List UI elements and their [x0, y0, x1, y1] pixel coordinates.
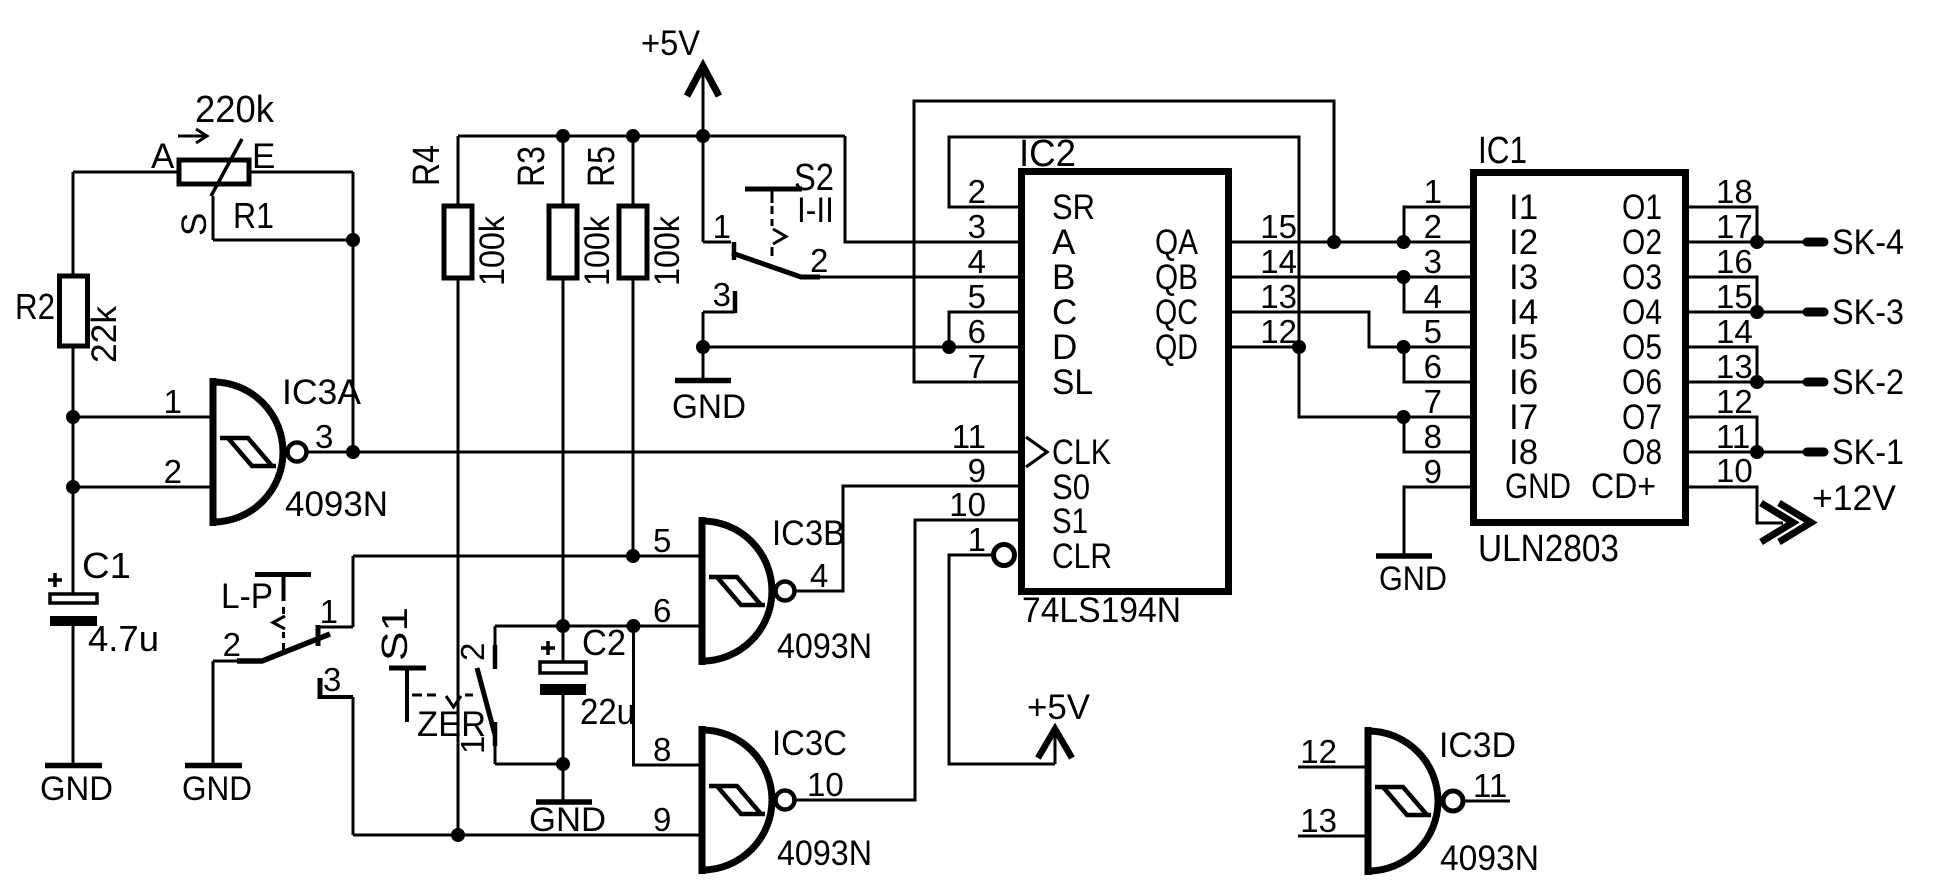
svg-text:QD: QD [1155, 328, 1198, 367]
node bus/+5V stem [696, 129, 710, 143]
svg-text:12: 12 [1300, 733, 1337, 770]
svg-text:5: 5 [653, 522, 671, 559]
wire bus corner to IC2 A [845, 136, 1021, 242]
wire IC3A output to CLK node [308, 451, 353, 454]
svg-text:A: A [1052, 223, 1076, 262]
svg-text:14: 14 [1260, 243, 1297, 280]
power +12V double chevron [1761, 503, 1811, 542]
svg-text:1: 1 [164, 383, 182, 420]
wire C1 to ground [72, 626, 75, 764]
svg-text:QA: QA [1155, 223, 1199, 262]
svg-text:4093N: 4093N [285, 485, 388, 524]
svg-text:I4: I4 [1509, 293, 1538, 332]
wire IC3D output [1465, 800, 1510, 803]
svg-text:22k: 22k [85, 306, 124, 363]
svg-text:9: 9 [653, 801, 671, 838]
svg-text:220k: 220k [195, 89, 275, 131]
wire O8 row to SK-1 [1689, 451, 1803, 454]
ground (L-P) [185, 763, 242, 769]
svg-text:13: 13 [1300, 802, 1337, 839]
svg-text:O7: O7 [1622, 398, 1662, 437]
svg-text:100k: 100k [648, 216, 687, 286]
svg-text:11: 11 [952, 418, 986, 455]
svg-text:100k: 100k [473, 216, 512, 286]
svg-text:S: S [175, 213, 214, 236]
pushbutton S1 ZER [389, 626, 495, 764]
svg-text:8: 8 [1424, 418, 1442, 455]
node IC3A output junction [346, 445, 360, 459]
svg-text:B: B [1052, 258, 1075, 297]
connector plug SK-1 [1807, 448, 1824, 457]
svg-text:3: 3 [968, 208, 986, 245]
svg-text:IC3A: IC3A [282, 373, 362, 412]
svg-text:11: 11 [1716, 418, 1750, 455]
svg-text:22u: 22u [580, 691, 635, 732]
svg-text:6: 6 [1424, 348, 1442, 385]
svg-text:10: 10 [807, 766, 844, 803]
svg-text:GND: GND [1379, 560, 1447, 598]
wire S1 pin2 row to IC3B pin6 [495, 625, 701, 628]
svg-text:2: 2 [454, 643, 491, 661]
svg-text:15: 15 [1260, 208, 1297, 245]
wire S2 pin3 down to D row [702, 312, 705, 347]
svg-text:+5V: +5V [1027, 688, 1091, 727]
svg-text:2: 2 [223, 626, 241, 663]
resistor R4 100k [444, 206, 472, 278]
svg-text:D: D [1052, 328, 1077, 367]
svg-text:GND: GND [672, 388, 746, 426]
svg-text:QC: QC [1155, 293, 1198, 332]
svg-text:4: 4 [1424, 278, 1442, 315]
wire O5 tie [1689, 347, 1757, 382]
ground (S2) [675, 378, 731, 384]
wire IC2 CLR to +5V [949, 555, 1055, 764]
svg-text:O8: O8 [1622, 433, 1662, 472]
svg-text:I1: I1 [1509, 188, 1538, 227]
power +5V arrow (top) [687, 66, 719, 242]
svg-text:GND: GND [529, 801, 606, 839]
svg-text:I2: I2 [1509, 223, 1538, 262]
svg-text:11: 11 [1473, 767, 1507, 804]
svg-text:I5: I5 [1509, 328, 1538, 367]
svg-text:QB: QB [1155, 258, 1198, 297]
wire R2 to C1 (IC3A input rail) [72, 346, 75, 594]
node C/D tie [942, 340, 956, 354]
wire O7 tie [1689, 417, 1757, 452]
potentiometer R1 220k [178, 129, 249, 196]
svg-text:8: 8 [653, 731, 671, 768]
svg-text:9: 9 [1424, 453, 1442, 490]
wire IC3C output to IC2 S1 [796, 520, 1021, 800]
wire R1 wiper S down [212, 196, 215, 240]
svg-text:O5: O5 [1622, 328, 1662, 367]
wire D row to IC2 D [703, 346, 1021, 349]
svg-text:GND: GND [40, 770, 113, 808]
svg-text:SK-4: SK-4 [1832, 223, 1904, 262]
wire IC1 pin9 to ground [1404, 487, 1470, 554]
wire IC1 pin1 tie [1404, 207, 1470, 242]
svg-text:18: 18 [1716, 173, 1753, 210]
switch S2 I-II [703, 189, 820, 313]
svg-text:+5V: +5V [641, 24, 701, 63]
svg-text:R1: R1 [233, 195, 274, 236]
ground (C1) [45, 763, 102, 769]
node QD/IC1 tie [1397, 410, 1411, 424]
wire IC2 C to D tie [949, 312, 1021, 347]
wire clock line to IC2 CLK [353, 451, 1021, 454]
svg-text:O4: O4 [1622, 293, 1662, 332]
wire wiper to node [213, 239, 353, 242]
gate IC3D 4093N [1368, 727, 1463, 875]
svg-text:12: 12 [1260, 313, 1297, 350]
svg-text:4: 4 [968, 243, 986, 280]
node QB/IC1 tie [1397, 270, 1411, 284]
svg-text:R5: R5 [581, 146, 623, 187]
resistor R5 100k [619, 206, 647, 278]
svg-text:6: 6 [653, 592, 671, 629]
svg-text:3: 3 [713, 276, 731, 313]
svg-text:C: C [1052, 293, 1077, 332]
wire QA row to IC1 pins 1/2 [1232, 241, 1470, 244]
svg-text:5: 5 [968, 278, 986, 315]
svg-text:4093N: 4093N [777, 627, 872, 666]
node C2 bottom junction [556, 757, 570, 771]
svg-text:4093N: 4093N [777, 834, 872, 873]
wire O1 tie [1689, 207, 1757, 242]
svg-text:S1: S1 [374, 607, 415, 661]
connector plug SK-4 [1807, 238, 1824, 247]
svg-text:1: 1 [454, 736, 491, 754]
svg-text:R2: R2 [15, 286, 55, 327]
svg-text:I-II: I-II [797, 191, 834, 230]
wire IC1 pin3-4 tie [1404, 277, 1470, 312]
IC2 CLR bubble [994, 545, 1015, 566]
svg-text:+12V: +12V [1812, 479, 1897, 518]
svg-text:IC3D: IC3D [1439, 726, 1516, 765]
op-amp-style gate IC3A 4093N [213, 378, 307, 526]
wire bus down to R3 [562, 136, 565, 206]
resistor R3 100k [549, 206, 577, 278]
node QA/IC1 tie [1397, 235, 1411, 249]
wire S2 pin2 to IC2 B [820, 276, 1021, 279]
switch L-P [213, 575, 353, 700]
wire R4 column down to bottom rail [457, 278, 460, 835]
node IC3B pin5 junction [626, 549, 640, 563]
svg-text:2: 2 [968, 173, 986, 210]
connector plug SK-2 [1807, 378, 1824, 387]
svg-text:4: 4 [810, 557, 828, 594]
svg-text:5: 5 [1424, 313, 1442, 350]
node O1/O2 tie [1750, 235, 1764, 249]
svg-text:13: 13 [1716, 348, 1753, 385]
svg-text:100k: 100k [578, 216, 617, 286]
svg-text:IC1: IC1 [1478, 130, 1527, 172]
node QA/SL feedback [1327, 235, 1341, 249]
wire R1.E right [249, 171, 353, 174]
wire pin5 row to IC3B [353, 555, 701, 558]
wire R1.A to left rail [73, 171, 179, 174]
svg-text:14: 14 [1716, 313, 1753, 350]
svg-text:SK-1: SK-1 [1832, 433, 1904, 472]
svg-text:IC3B: IC3B [772, 514, 845, 553]
svg-text:1: 1 [1424, 173, 1442, 210]
wire L-P pin2 down to ground [212, 661, 215, 764]
node C2 top junction [556, 619, 570, 633]
IC1 body ULN2803 [1474, 173, 1686, 523]
svg-text:SL: SL [1052, 363, 1093, 402]
wire IC2 SR feedback (to QD column) [949, 137, 1299, 347]
node IC3B pin6 junction [627, 619, 641, 633]
wire R3 column down to C2 [562, 278, 565, 626]
svg-text:I3: I3 [1509, 258, 1538, 297]
IC2 body 74LS194N [1022, 172, 1229, 592]
wire O2 row to SK-4 [1689, 241, 1803, 244]
svg-text:ULN2803: ULN2803 [1478, 528, 1619, 570]
svg-text:E: E [252, 137, 275, 176]
svg-text:1: 1 [320, 593, 338, 630]
svg-text:O6: O6 [1622, 363, 1662, 402]
wire O3 tie [1689, 277, 1757, 312]
svg-text:R4: R4 [406, 145, 448, 186]
wire left rail down to R2 [72, 172, 75, 276]
svg-text:IC3C: IC3C [772, 724, 847, 763]
wire R1.E down to wiper node [352, 172, 355, 240]
svg-text:10: 10 [949, 486, 986, 523]
wire R1 node down to IC3A output [352, 240, 355, 452]
capacitor C2 22u [540, 626, 586, 764]
wire IC3D pin 13 [1298, 835, 1366, 838]
node bus/R5 [626, 129, 640, 143]
wire O4 row to SK-3 [1689, 311, 1803, 314]
node IC3A pin1 junction [66, 410, 80, 424]
wire O6 row to SK-2 [1689, 381, 1803, 384]
power +5V arrow (CLR) [1038, 729, 1072, 764]
wire IC1 pin5-6 tie [1404, 347, 1470, 382]
svg-text:I7: I7 [1509, 398, 1538, 437]
svg-text:SR: SR [1052, 188, 1095, 227]
svg-text:O3: O3 [1622, 258, 1662, 297]
svg-text:C2: C2 [582, 622, 626, 663]
gate IC3B 4093N [702, 517, 795, 665]
svg-text:3: 3 [1424, 243, 1442, 280]
wire IC3B output to IC2 S0 [796, 486, 1021, 591]
svg-text:2: 2 [164, 453, 182, 490]
svg-text:13: 13 [1260, 278, 1297, 315]
wire pin6 node down to IC3C pin8 [634, 626, 702, 765]
svg-text:CLK: CLK [1052, 433, 1111, 472]
svg-text:1: 1 [968, 521, 986, 558]
svg-text:2: 2 [810, 242, 828, 279]
wire bus down to R5 [632, 136, 635, 206]
svg-text:O1: O1 [1622, 188, 1662, 227]
wire QD row to IC1 pins 7/8 [1232, 347, 1470, 417]
wire IC1 pin7-8 tie [1404, 417, 1470, 452]
svg-text:CD+: CD+ [1591, 467, 1656, 506]
wire L-P pin1 up to pin5 row [352, 556, 355, 627]
resistor R2 22k [60, 276, 88, 346]
svg-text:CLR: CLR [1052, 537, 1112, 576]
svg-text:SK-3: SK-3 [1832, 293, 1904, 332]
wire C2 bottom to ground [562, 764, 565, 802]
wire QB row to IC1 pin 3 [1232, 276, 1470, 279]
connector plug SK-3 [1807, 308, 1824, 317]
wire IC3D pin 12 [1298, 766, 1366, 769]
svg-text:4.7u: 4.7u [88, 618, 159, 659]
svg-text:10: 10 [1716, 452, 1753, 489]
wire S1 pin1 to C2 bottom [495, 763, 563, 766]
wire QC row to IC1 pins 5/6 [1232, 312, 1470, 347]
wire bus down to R4 [457, 136, 460, 206]
svg-text:6: 6 [968, 313, 986, 350]
svg-text:A: A [151, 137, 175, 176]
node bus/R3 [556, 129, 570, 143]
ground (C2) [536, 799, 592, 805]
node IC3A pin2 junction [66, 480, 80, 494]
svg-text:C1: C1 [82, 545, 131, 586]
svg-text:3: 3 [323, 661, 341, 698]
svg-text:4093N: 4093N [1440, 839, 1539, 878]
capacitor C1 4.7u [48, 573, 97, 626]
gate IC3C 4093N [702, 726, 795, 874]
wire top bus +5V [458, 135, 845, 138]
svg-text:7: 7 [968, 348, 986, 385]
ground (IC1) [1376, 553, 1432, 559]
wire CD+ to +12V [1689, 487, 1783, 523]
svg-text:9: 9 [968, 452, 986, 489]
node O5/O6 tie [1750, 375, 1764, 389]
svg-text:17: 17 [1716, 208, 1753, 245]
svg-text:12: 12 [1716, 383, 1753, 420]
svg-text:S1: S1 [1052, 502, 1088, 541]
svg-text:SK-2: SK-2 [1832, 363, 1904, 402]
svg-text:O2: O2 [1622, 223, 1662, 262]
svg-text:IC2: IC2 [1019, 133, 1076, 175]
svg-text:3: 3 [315, 418, 333, 455]
node O7/O8 tie [1750, 445, 1764, 459]
wire IC2 SL feedback (to QA) [914, 101, 1334, 382]
node QD branch [1292, 340, 1306, 354]
svg-text:15: 15 [1716, 278, 1753, 315]
svg-text:74LS194N: 74LS194N [1022, 591, 1181, 630]
node D row junction [696, 340, 710, 354]
svg-text:GND: GND [1505, 467, 1571, 506]
svg-text:R3: R3 [511, 146, 553, 187]
svg-text:GND: GND [182, 770, 252, 808]
node QC/IC1 tie [1397, 340, 1411, 354]
wire to ground (S2) [702, 347, 705, 378]
node bottom rail / R4 column [451, 828, 465, 842]
IC2 clock triangle [1026, 437, 1047, 467]
node O3/O4 tie [1750, 305, 1764, 319]
node R1.E/S junction [346, 233, 360, 247]
wire IC3A pin 1 [73, 416, 211, 419]
wire L-P pin3 down to bottom rail [352, 697, 355, 835]
svg-text:L-P: L-P [221, 577, 273, 616]
svg-text:2: 2 [1424, 208, 1442, 245]
svg-text:16: 16 [1716, 243, 1753, 280]
svg-text:7: 7 [1424, 383, 1442, 420]
wire IC3A pin 2 [73, 486, 211, 489]
svg-text:I6: I6 [1509, 363, 1538, 402]
wire bottom rail to IC3C pin9 [353, 834, 701, 837]
wire R5 column down to IC3B pin5 [632, 278, 635, 556]
svg-text:1: 1 [713, 208, 731, 245]
